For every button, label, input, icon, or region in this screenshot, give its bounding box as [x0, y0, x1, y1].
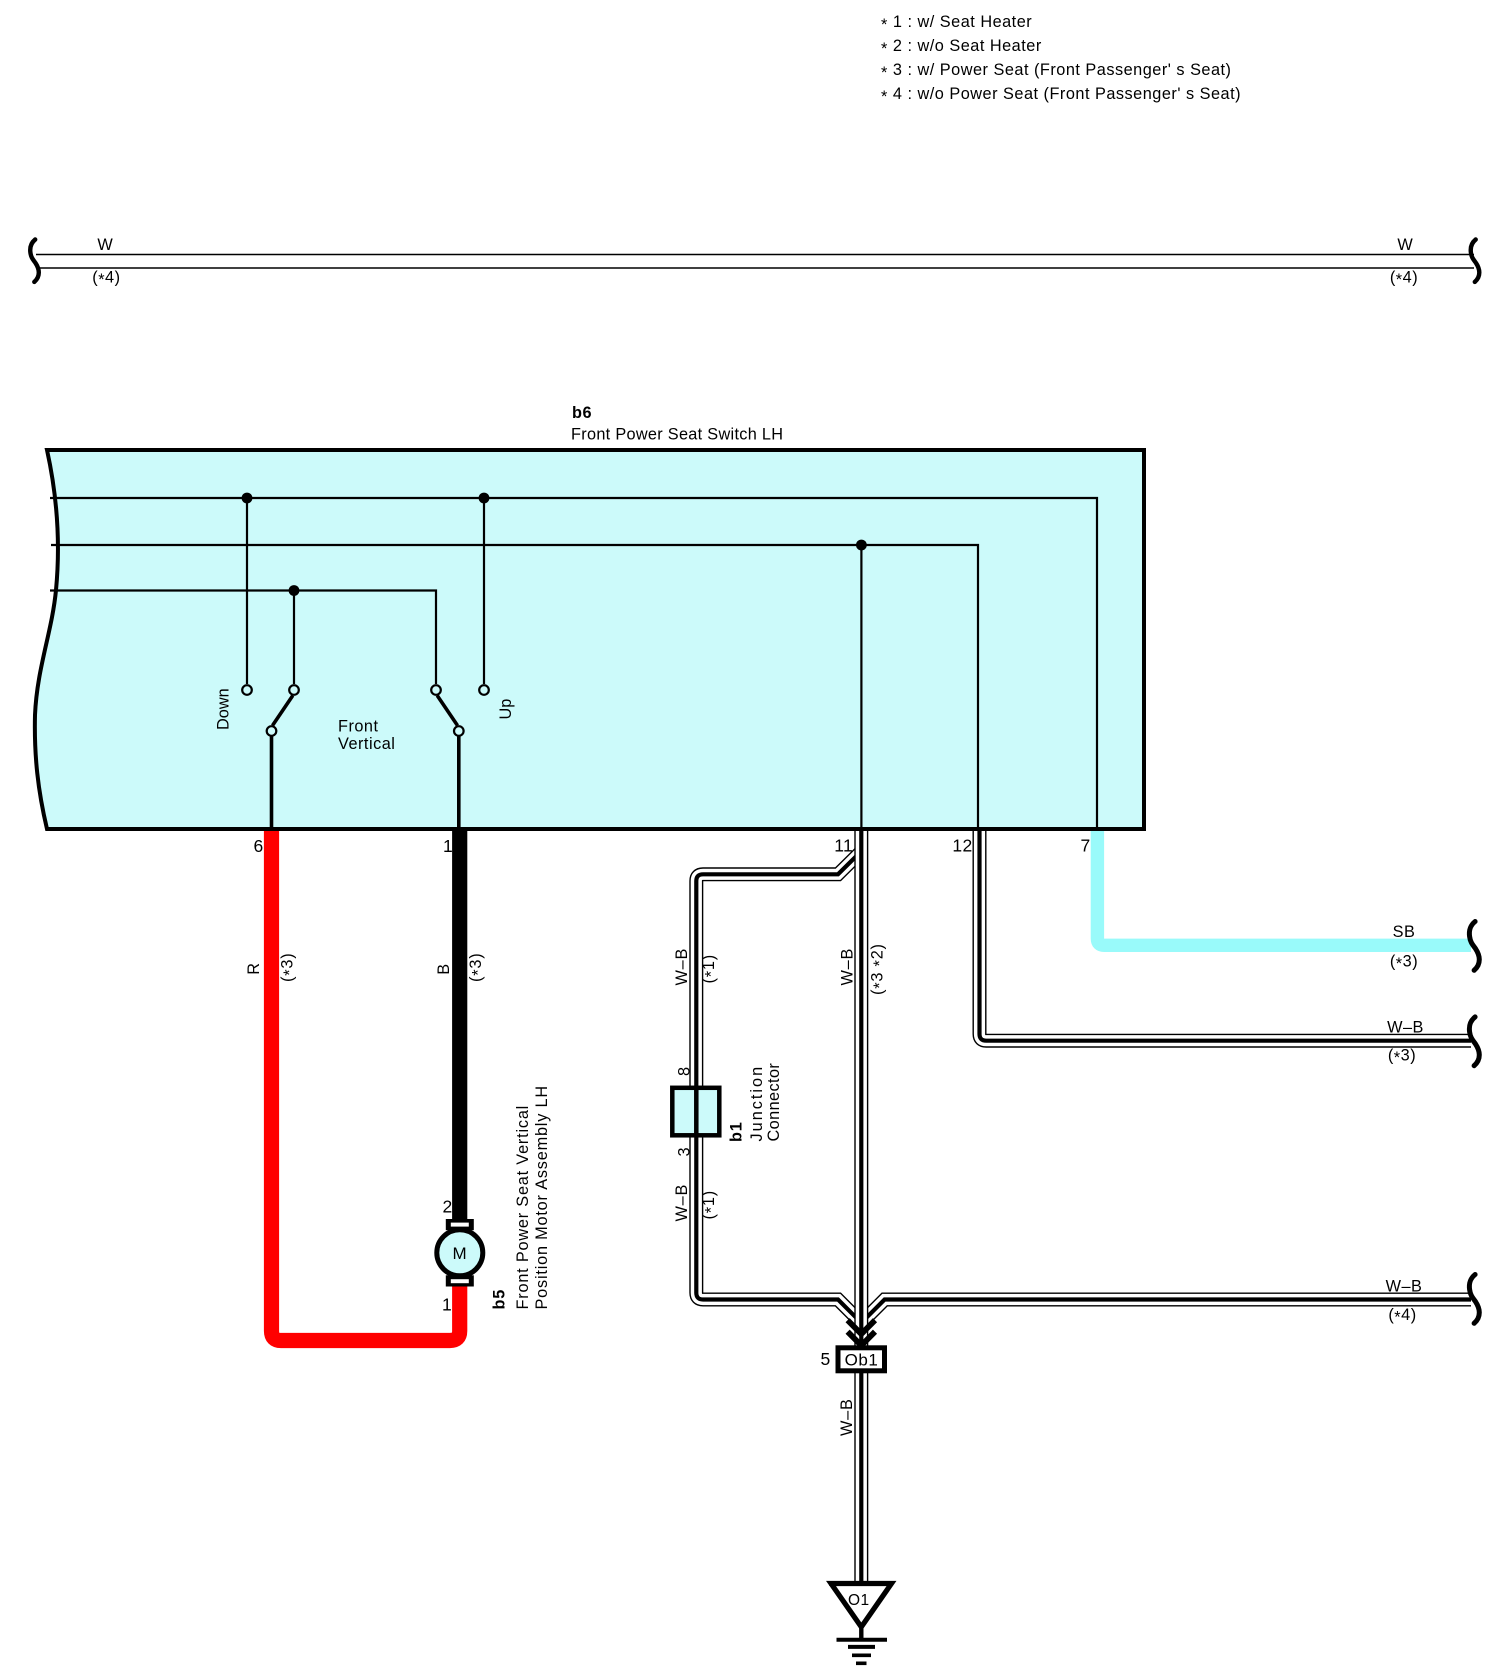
- svg-text:3: 3: [676, 1147, 694, 1157]
- svg-text:* 4 : w/o Power Seat (Front Pa: * 4 : w/o Power Seat (Front Passenger' s…: [881, 85, 1241, 106]
- svg-text:W–B: W–B: [673, 948, 691, 986]
- svg-text:Front Power Seat Switch LH: Front Power Seat Switch LH: [571, 426, 783, 444]
- svg-text:W–B: W–B: [1386, 1278, 1423, 1296]
- svg-text:Connector: Connector: [765, 1063, 783, 1142]
- svg-text:12: 12: [952, 836, 972, 856]
- svg-text:(*1): (*1): [700, 954, 721, 983]
- svg-text:W–B: W–B: [1387, 1019, 1424, 1037]
- svg-text:Up: Up: [497, 699, 515, 720]
- svg-text:b1: b1: [728, 1121, 746, 1142]
- svg-text:(*1): (*1): [700, 1190, 721, 1219]
- svg-text:(*4): (*4): [1388, 1306, 1416, 1327]
- svg-text:Front: Front: [338, 718, 379, 736]
- svg-text:W–B: W–B: [838, 1398, 856, 1436]
- svg-text:(*4): (*4): [1390, 268, 1418, 289]
- svg-text:(*3): (*3): [467, 953, 488, 982]
- svg-text:O1: O1: [848, 1592, 870, 1609]
- svg-text:R: R: [245, 962, 263, 975]
- svg-text:(*3): (*3): [1390, 953, 1418, 974]
- svg-text:* 2 : w/o Seat Heater: * 2 : w/o Seat Heater: [881, 37, 1042, 58]
- svg-text:W: W: [1397, 236, 1413, 254]
- svg-text:W–B: W–B: [673, 1184, 691, 1222]
- svg-text:6: 6: [253, 836, 263, 856]
- svg-text:b5: b5: [491, 1289, 509, 1310]
- svg-text:Position Motor Assembly LH: Position Motor Assembly LH: [533, 1085, 551, 1309]
- svg-text:(*3): (*3): [1388, 1047, 1416, 1068]
- svg-text:1: 1: [443, 836, 453, 856]
- svg-text:Vertical: Vertical: [338, 735, 395, 753]
- svg-text:5: 5: [820, 1349, 830, 1369]
- svg-text:7: 7: [1080, 836, 1090, 856]
- svg-text:M: M: [452, 1244, 467, 1263]
- svg-text:* 3 : w/ Power Seat (Front Pas: * 3 : w/ Power Seat (Front Passenger' s …: [881, 61, 1231, 82]
- svg-text:1: 1: [442, 1295, 452, 1315]
- svg-text:b6: b6: [572, 404, 592, 422]
- svg-text:Junction: Junction: [748, 1065, 766, 1142]
- svg-text:(*3): (*3): [278, 953, 299, 982]
- svg-text:B: B: [435, 963, 453, 975]
- svg-text:* 1 : w/ Seat Heater: * 1 : w/ Seat Heater: [881, 13, 1032, 34]
- svg-text:Front Power Seat Vertical: Front Power Seat Vertical: [514, 1105, 532, 1310]
- svg-text:SB: SB: [1393, 923, 1416, 941]
- svg-text:Down: Down: [215, 688, 233, 730]
- svg-text:W: W: [97, 236, 113, 254]
- svg-text:2: 2: [442, 1197, 452, 1217]
- svg-text:Ob1: Ob1: [845, 1351, 879, 1370]
- svg-text:(*4): (*4): [92, 268, 120, 289]
- svg-text:W–B: W–B: [839, 948, 857, 986]
- svg-text:8: 8: [676, 1066, 694, 1076]
- svg-text:(*3 *2): (*3 *2): [869, 943, 890, 995]
